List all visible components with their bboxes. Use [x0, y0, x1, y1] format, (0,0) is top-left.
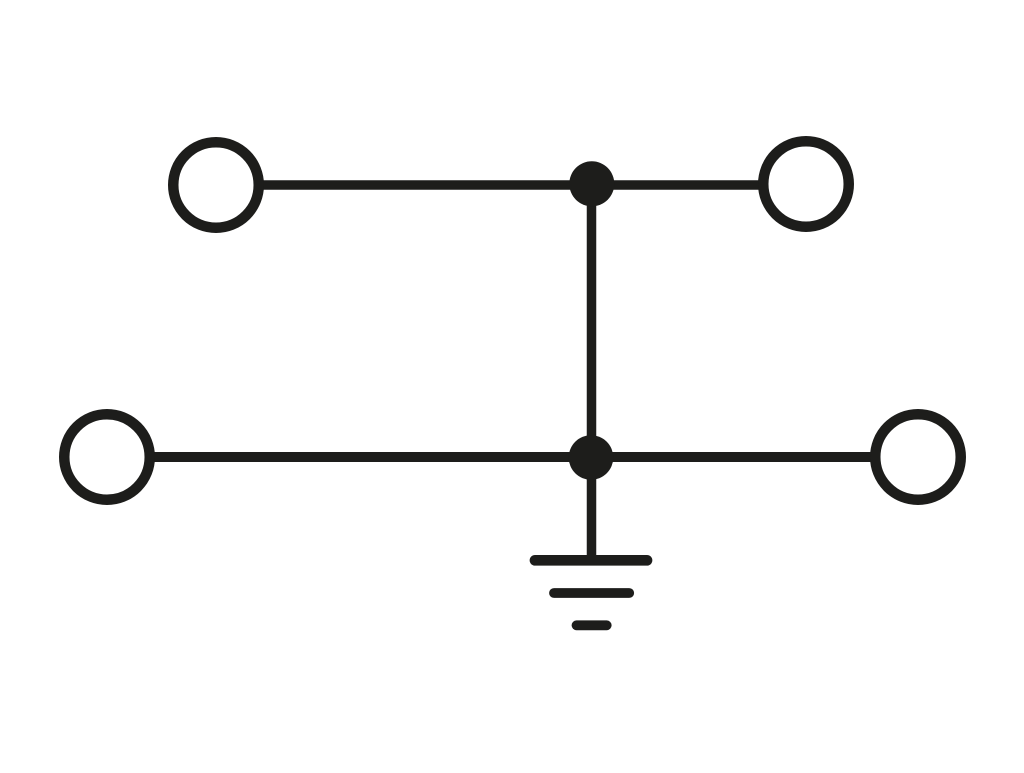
- wire: bottom horizontal conductor: [152, 452, 873, 462]
- wire: vertical bridge conductor: [587, 184, 597, 556]
- ground: bottom bar: [577, 620, 607, 630]
- wire: top horizontal conductor: [260, 180, 762, 190]
- terminal circle: top-right clamp point: [763, 141, 849, 227]
- ground: middle bar: [554, 588, 629, 598]
- terminal circle: bottom-left clamp point: [64, 414, 150, 500]
- node: bottom junction dot: [569, 435, 614, 480]
- terminal circle: bottom-right clamp point: [875, 414, 961, 500]
- ground: top bar: [535, 555, 647, 566]
- node: top junction dot: [569, 161, 614, 206]
- terminal circle: top-left clamp point: [173, 142, 259, 228]
